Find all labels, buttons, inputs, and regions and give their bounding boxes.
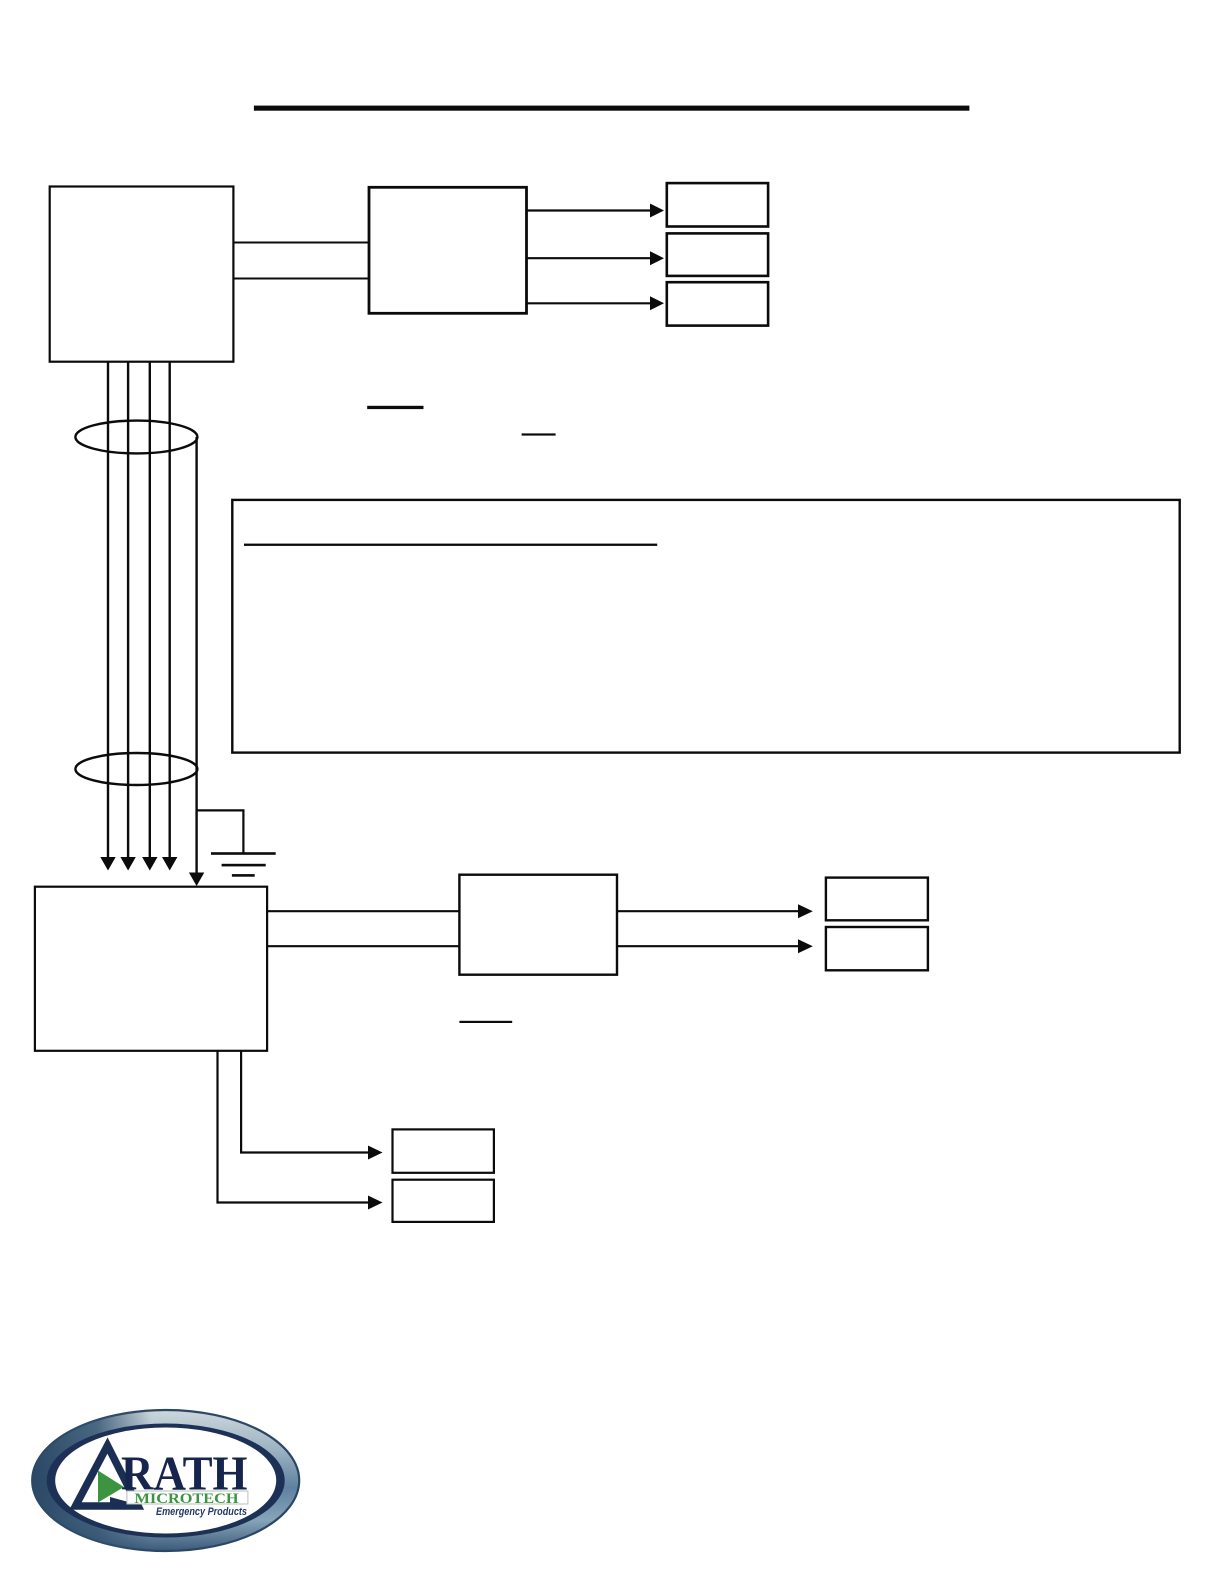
wire: upper connector top <box>233 241 369 243</box>
block: lower middle box <box>459 875 617 975</box>
cable sheath ellipse upper <box>75 421 197 454</box>
svg-text:MICROTECH: MICROTECH <box>135 1491 240 1507</box>
wire: lower connector top <box>267 910 459 912</box>
wire: cable conductor 4 <box>162 362 177 871</box>
ground <box>211 852 276 876</box>
wire: cable conductor 2 <box>120 362 135 871</box>
svg-text:Emergency Products: Emergency Products <box>156 1506 247 1518</box>
block: bottom small box 2 <box>393 1180 494 1222</box>
wire: arrow to small box 1 <box>527 204 665 218</box>
block: small box 2 <box>667 233 768 276</box>
block: top-left box <box>50 187 234 362</box>
logo: triangle emblem <box>76 1446 144 1509</box>
block: small box 3 <box>667 282 768 325</box>
logo: MICROTECH band <box>127 1491 248 1507</box>
wire: cable conductor 3 <box>142 362 157 871</box>
logo: white interior <box>55 1428 276 1534</box>
wire: lower connector bottom <box>267 945 459 947</box>
logo: navy ring <box>47 1424 285 1538</box>
logo: rim left dark shading <box>40 1417 292 1544</box>
note heading underline <box>244 544 657 546</box>
wire: cable conductor 1 <box>100 362 115 871</box>
cable sheath ellipse lower <box>75 753 197 785</box>
title underline <box>254 106 970 111</box>
wire: bottom drop to upper small box <box>241 1051 383 1160</box>
wire: bottom drop to lower small box <box>218 1051 383 1210</box>
underline B <box>522 433 556 435</box>
block: small box 1 <box>667 183 768 226</box>
wire: arrow to small box 2 <box>527 251 665 265</box>
note box <box>232 500 1179 753</box>
block: right small box B <box>826 927 928 970</box>
wire: shield drain conductor <box>189 437 204 886</box>
block: lower-left box <box>35 887 267 1051</box>
underline row2 <box>459 1021 512 1023</box>
wire: ground branch <box>197 810 244 853</box>
underline A <box>367 406 423 409</box>
wire: upper connector bottom <box>233 277 369 279</box>
block: right small box A <box>826 878 928 921</box>
wire: arrow to small box 3 <box>527 296 665 310</box>
block: bottom small box 1 <box>393 1129 494 1172</box>
logo: outer metallic oval <box>32 1410 299 1551</box>
wire: arrow to right small box A <box>617 904 813 918</box>
block: top middle box <box>369 187 527 313</box>
wire: arrow to right small box B <box>617 939 813 953</box>
